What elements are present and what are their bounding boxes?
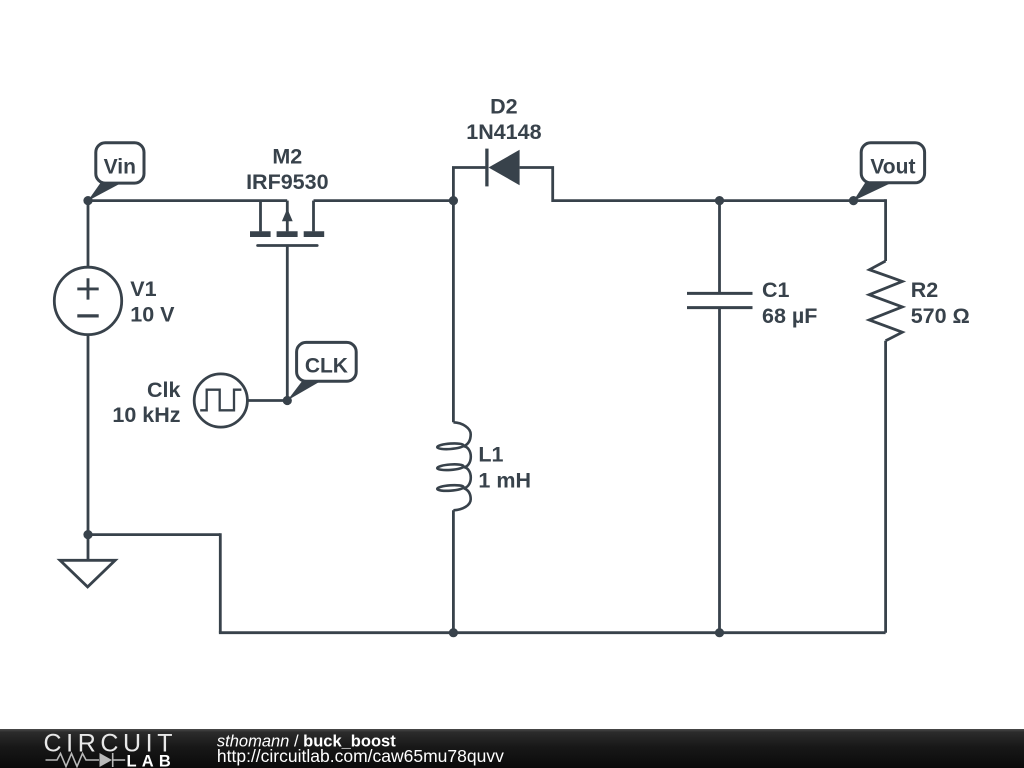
- wire diode output to R2 top: [553, 199, 886, 202]
- node Vin callout: [88, 143, 144, 201]
- resistor R2: [869, 261, 902, 341]
- node switch-node junction at L1 top: [449, 196, 458, 205]
- ground: [60, 560, 115, 587]
- wire R2 bottom lead: [884, 341, 887, 633]
- wire L1 top lead: [452, 201, 455, 423]
- svg-text:IRF9530: IRF9530: [246, 170, 329, 194]
- wire ground run horizontal: [88, 533, 220, 536]
- node Vout junction: [849, 196, 858, 205]
- svg-text:D2: D2: [490, 95, 518, 119]
- node Vin junction: [83, 196, 92, 205]
- transistor M2 PMOS: [250, 201, 324, 246]
- svg-text:M2: M2: [272, 145, 302, 169]
- svg-text:Clk: Clk: [147, 378, 181, 402]
- wire ground stub: [87, 535, 90, 561]
- node Vout callout: [853, 143, 924, 201]
- svg-text:L1: L1: [478, 443, 503, 467]
- wire M2 drain to node A: [314, 199, 454, 202]
- wire diode anode lead: [520, 168, 553, 203]
- wire V1 bottom lead: [87, 335, 90, 535]
- wire M2 gate to CLK node: [286, 246, 289, 401]
- node CLK junction: [283, 396, 292, 405]
- voltage source V1: [54, 267, 121, 334]
- wire bottom rail: [219, 631, 886, 634]
- svg-text:V1: V1: [130, 277, 156, 301]
- svg-text:10 kHz: 10 kHz: [112, 403, 180, 427]
- svg-text:R2: R2: [911, 278, 939, 302]
- capacitor C1: [687, 293, 753, 307]
- inductor L1: [437, 422, 471, 510]
- clock source Clk: [194, 374, 247, 427]
- svg-text:LAB: LAB: [127, 752, 177, 768]
- svg-text:C1: C1: [762, 278, 790, 302]
- svg-text:Vout: Vout: [870, 156, 915, 179]
- svg-text:Vin: Vin: [104, 155, 136, 178]
- svg-text:1 mH: 1 mH: [478, 469, 531, 493]
- node C1 top junction: [715, 196, 724, 205]
- svg-text:10 V: 10 V: [130, 303, 175, 327]
- node ground junction: [83, 530, 92, 539]
- svg-text:570 Ω: 570 Ω: [911, 304, 970, 328]
- wire ground run vertical: [219, 533, 222, 633]
- wire Clk source to CLK node: [247, 399, 287, 402]
- diode D2: [487, 149, 520, 187]
- node C1 bottom junction: [715, 628, 724, 637]
- svg-text:CLK: CLK: [305, 354, 348, 377]
- wire C1 top lead: [718, 201, 721, 294]
- svg-text:1N4148: 1N4148: [466, 120, 541, 144]
- logo resistor-diode glyph: [46, 753, 126, 767]
- wire diode branch riser: [453, 168, 487, 203]
- wire top left Vin to M2: [88, 199, 287, 202]
- wire V1 top lead: [87, 201, 90, 268]
- svg-text:http://circuitlab.com/caw65mu7: http://circuitlab.com/caw65mu78quvv: [217, 746, 504, 766]
- svg-text:68 µF: 68 µF: [762, 304, 817, 328]
- node CLK callout: [287, 342, 356, 400]
- footer bar: [0, 729, 1024, 768]
- wire C1 bottom lead: [718, 308, 721, 633]
- wire L1 bottom lead: [452, 510, 455, 632]
- wire R2 top lead: [884, 199, 887, 261]
- node L1 bottom junction: [449, 628, 458, 637]
